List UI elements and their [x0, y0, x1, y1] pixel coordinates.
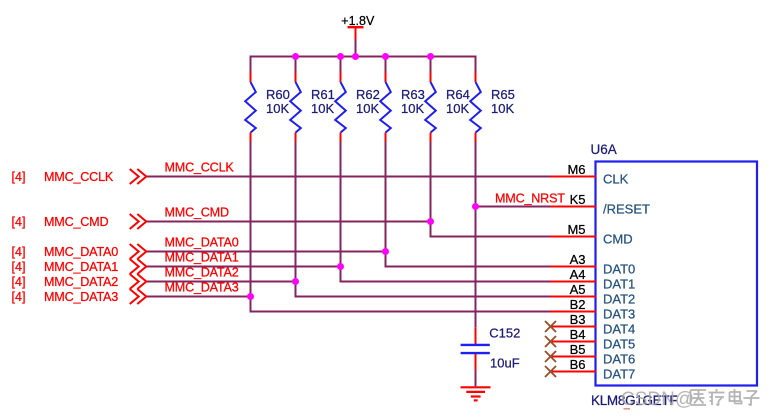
- junction MMC_DATA2: [292, 278, 299, 285]
- junction bus dot 4: [382, 53, 389, 60]
- svg-text:M6: M6: [567, 162, 585, 177]
- svg-text:U6A: U6A: [591, 142, 617, 157]
- no-connect X pin B6: [545, 366, 556, 377]
- pin B2 DAT3: [570, 297, 636, 321]
- part value KLM8G1GETF: [591, 393, 677, 408]
- svg-text:CLK: CLK: [603, 171, 629, 186]
- resistor R63 10K: [380, 57, 425, 144]
- svg-text:DAT6: DAT6: [603, 351, 635, 366]
- junction bus dot 5: [427, 53, 434, 60]
- svg-text:R62: R62: [356, 87, 380, 102]
- svg-text:MMC_DATA1: MMC_DATA1: [44, 260, 118, 274]
- svg-text:B5: B5: [570, 342, 586, 357]
- svg-text:10K: 10K: [311, 101, 334, 116]
- refdes U6A: [591, 142, 617, 157]
- svg-text:R63: R63: [401, 87, 425, 102]
- junction MMC_NRST: [472, 203, 479, 210]
- net label MMC_NRST: [495, 192, 565, 206]
- svg-text:DAT0: DAT0: [603, 261, 635, 276]
- wire MMC_DATA1: [146, 266, 341, 268]
- wire R62 column to chip: [341, 142, 551, 282]
- svg-text:R60: R60: [266, 87, 290, 102]
- wire MMC_CMD: [146, 221, 431, 223]
- svg-text:MMC_DATA1: MMC_DATA1: [165, 251, 239, 265]
- pin B5 DAT6: [570, 342, 636, 366]
- wire +1.8V bus: [250, 56, 477, 58]
- resistor R65 10K: [470, 57, 515, 144]
- svg-text:+1.8V: +1.8V: [341, 14, 375, 28]
- no-connect X pin B4: [545, 336, 556, 347]
- wire MMC_DATA0: [146, 251, 386, 253]
- svg-text:K5: K5: [570, 192, 586, 207]
- U6A pin stubs: [550, 177, 596, 372]
- svg-text:CSDN@: CSDN@: [621, 389, 694, 410]
- junction MMC_CMD: [427, 218, 434, 225]
- svg-text:MMC_CCLK: MMC_CCLK: [44, 170, 114, 184]
- svg-text:10K: 10K: [446, 101, 469, 116]
- svg-text:MMC_DATA0: MMC_DATA0: [165, 236, 239, 250]
- power +1.8V: [341, 14, 375, 56]
- off-page connector MMC_DATA2: [12, 274, 147, 289]
- svg-text:MMC_CCLK: MMC_CCLK: [165, 161, 235, 175]
- wire MMC_DATA2: [146, 281, 296, 283]
- svg-text:[4]: [4]: [12, 260, 26, 274]
- pin K5 /RESET: [570, 192, 650, 216]
- svg-text:[4]: [4]: [12, 275, 26, 289]
- pin B3 DAT4: [570, 312, 636, 336]
- svg-text:CMD: CMD: [603, 231, 633, 246]
- svg-text:B2: B2: [570, 297, 586, 312]
- junction MMC_DATA0: [382, 248, 389, 255]
- svg-text:MMC_CMD: MMC_CMD: [165, 206, 229, 220]
- svg-text:MMC_NRST: MMC_NRST: [495, 192, 565, 206]
- svg-text:A4: A4: [570, 267, 586, 282]
- svg-text:10K: 10K: [356, 101, 379, 116]
- pin M6 CLK: [567, 162, 628, 186]
- no-connect X pin B5: [545, 351, 556, 362]
- wire C152 to ground: [475, 370, 477, 386]
- svg-text:B6: B6: [570, 357, 586, 372]
- svg-text:R65: R65: [491, 87, 515, 102]
- wire R60 column to chip: [251, 142, 551, 312]
- no-connect X pin B3: [545, 321, 556, 332]
- net label MMC_CCLK: [165, 161, 235, 175]
- svg-text:MMC_DATA2: MMC_DATA2: [165, 266, 239, 280]
- svg-text:DAT7: DAT7: [603, 366, 635, 381]
- net label MMC_DATA0: [165, 236, 239, 250]
- svg-text:B4: B4: [570, 327, 586, 342]
- junction MMC_DATA3: [247, 293, 254, 300]
- svg-text:MMC_DATA3: MMC_DATA3: [44, 290, 118, 304]
- svg-text:R61: R61: [311, 87, 335, 102]
- pin B6 DAT7: [570, 357, 636, 381]
- pin A3 DAT0: [570, 252, 636, 276]
- net label MMC_CMD: [165, 206, 229, 220]
- svg-text:M5: M5: [567, 222, 585, 237]
- pin A5 DAT2: [570, 282, 636, 306]
- svg-text:[4]: [4]: [12, 215, 26, 229]
- svg-text:/RESET: /RESET: [603, 201, 650, 216]
- off-page connector MMC_CCLK: [12, 169, 147, 184]
- svg-text:R64: R64: [446, 87, 470, 102]
- off-page connector MMC_DATA3: [12, 289, 147, 304]
- svg-text:DAT5: DAT5: [603, 336, 635, 351]
- ground: [461, 387, 491, 400]
- wire R61 column to chip: [296, 142, 551, 297]
- capacitor C152 10uF: [461, 325, 521, 370]
- pin M5 CMD: [567, 222, 632, 246]
- svg-text:MMC_CMD: MMC_CMD: [44, 215, 108, 229]
- svg-text:DAT3: DAT3: [603, 306, 635, 321]
- resistor R62 10K: [335, 57, 380, 144]
- svg-text:10K: 10K: [491, 101, 514, 116]
- junction bus dot 1: [292, 53, 299, 60]
- net label MMC_DATA1: [165, 251, 239, 265]
- svg-text:MMC_DATA2: MMC_DATA2: [44, 275, 118, 289]
- svg-text:C152: C152: [489, 325, 520, 340]
- off-page connector MMC_CMD: [12, 214, 147, 229]
- pin A4 DAT1: [570, 267, 636, 291]
- watermark CSDN@医疗电子: [621, 389, 760, 410]
- IC U6A body KLM8G1GETF: [596, 162, 758, 386]
- svg-text:[4]: [4]: [12, 245, 26, 259]
- svg-text:MMC_DATA3: MMC_DATA3: [165, 281, 239, 295]
- wire MMC_DATA3: [146, 296, 251, 298]
- resistor R64 10K: [425, 57, 470, 144]
- svg-text:DAT2: DAT2: [603, 291, 635, 306]
- junction bus dot 2: [337, 53, 344, 60]
- svg-text:10K: 10K: [266, 101, 289, 116]
- svg-text:DAT1: DAT1: [603, 276, 635, 291]
- pin B4 DAT5: [570, 327, 636, 351]
- svg-text:10K: 10K: [401, 101, 424, 116]
- resistor R61 10K: [290, 57, 335, 144]
- wire R64 column to chip: [431, 142, 551, 237]
- svg-text:A3: A3: [570, 252, 586, 267]
- svg-text:A5: A5: [570, 282, 586, 297]
- junction MMC_DATA1: [337, 263, 344, 270]
- svg-text:DAT4: DAT4: [603, 321, 635, 336]
- svg-text:[4]: [4]: [12, 290, 26, 304]
- wire MMC_NRST net (R65 down to C152): [476, 142, 551, 327]
- resistor R60 10K: [245, 57, 290, 144]
- junction bus dot 3: [352, 53, 359, 60]
- wire MMC_CCLK: [146, 176, 550, 178]
- svg-text:10uF: 10uF: [490, 356, 520, 371]
- off-page connector MMC_DATA1: [12, 259, 147, 274]
- net label MMC_DATA2: [165, 266, 239, 280]
- net label MMC_DATA3: [165, 281, 239, 295]
- wire R63 column to chip: [386, 142, 551, 267]
- svg-text:MMC_DATA0: MMC_DATA0: [44, 245, 118, 259]
- svg-text:[4]: [4]: [12, 170, 26, 184]
- svg-text:B3: B3: [570, 312, 586, 327]
- off-page connector MMC_DATA0: [12, 244, 147, 259]
